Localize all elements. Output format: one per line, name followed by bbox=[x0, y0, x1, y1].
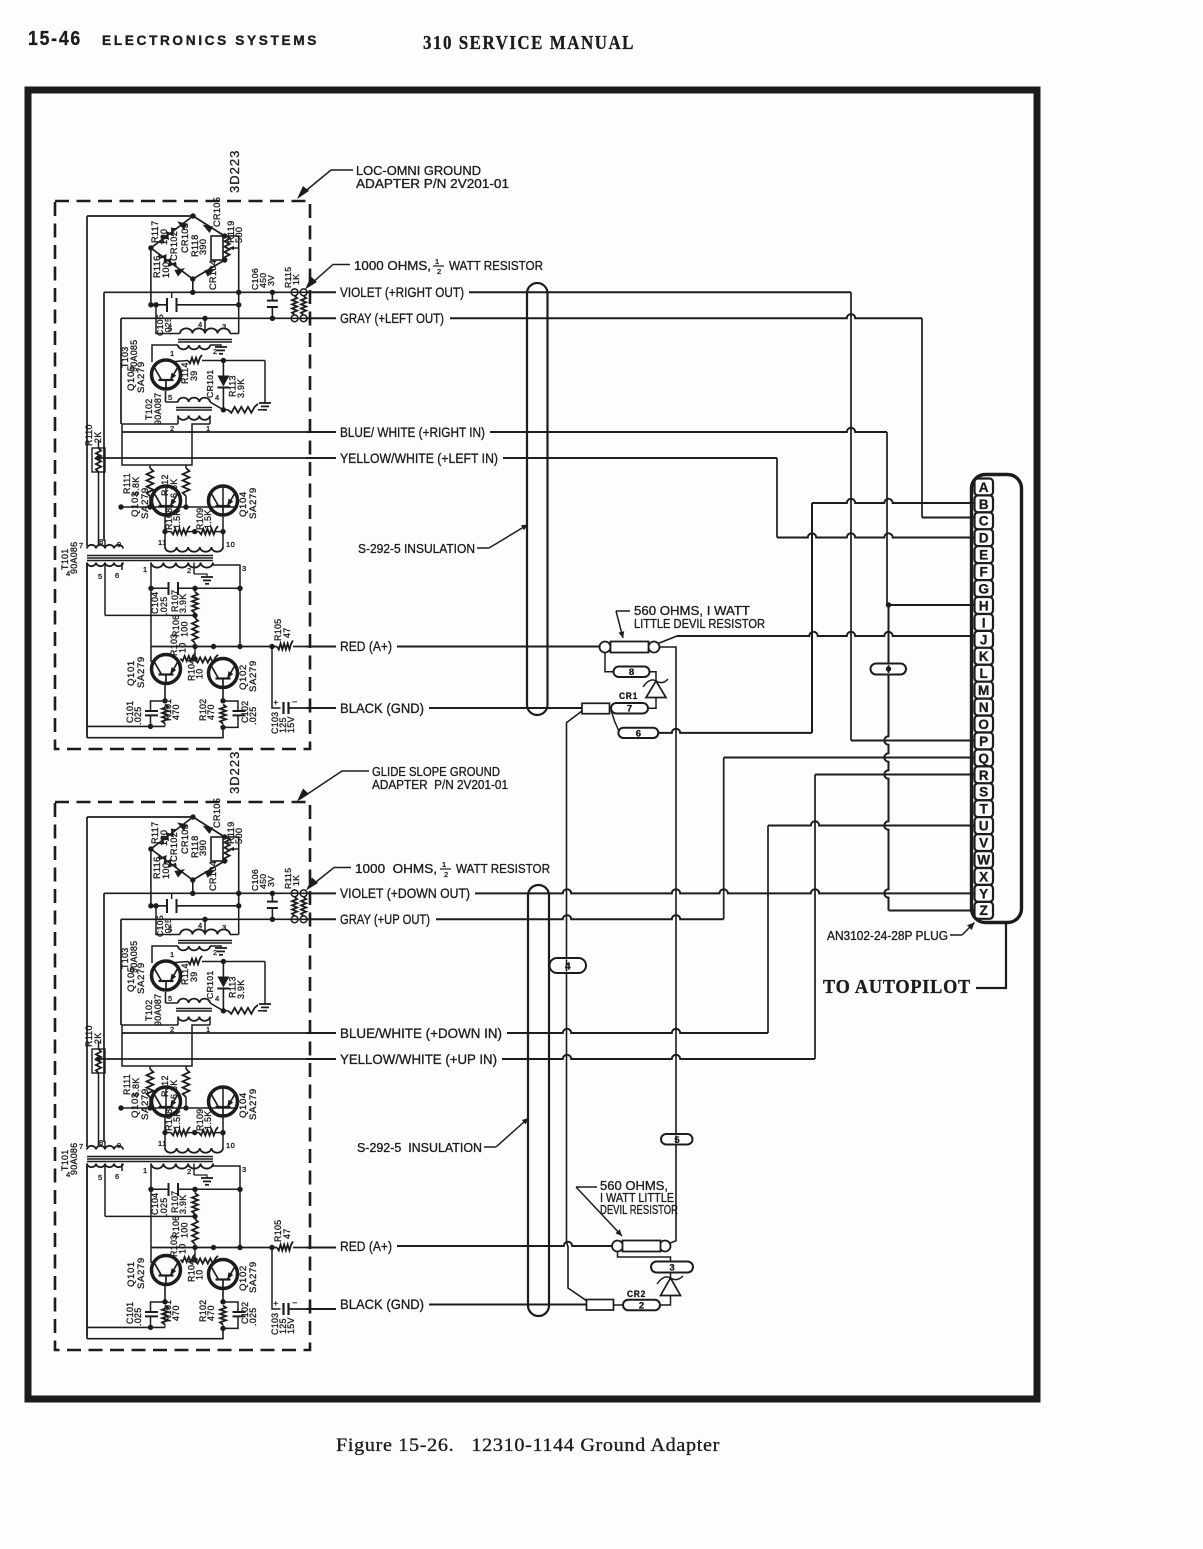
wire GRAY to Q bbox=[724, 758, 975, 920]
wire terminal resistor BLACK (upper) bbox=[582, 703, 610, 713]
label R119 500 (LOC-OMNI block) bbox=[226, 221, 244, 243]
svg-text:X: X bbox=[979, 869, 988, 884]
svg-text:BLACK (GND): BLACK (GND) bbox=[340, 700, 424, 716]
label 1000 OHMS 1/2 WATT (upper) bbox=[354, 257, 543, 276]
wire RED (A+) upper bbox=[306, 646, 600, 648]
svg-text:470: 470 bbox=[206, 1305, 216, 1321]
capacitor C106 (LOC-OMNI block) bbox=[267, 290, 278, 321]
wire bridge left drop (LOC-OMNI block) bbox=[150, 248, 152, 305]
resistor R114 (LOC-OMNI block) bbox=[175, 355, 265, 363]
diode CR105 (glide slope block) bbox=[203, 826, 214, 834]
wire mid rail (LOC-OMNI block) bbox=[105, 613, 198, 618]
label R118 390 (LOC-OMNI block) bbox=[190, 235, 208, 257]
pin 9 T101 (LOC-OMNI block) bbox=[117, 540, 122, 549]
resistor R109 (glide slope block) bbox=[199, 1127, 218, 1135]
label R108 1.5K (LOC-OMNI block) bbox=[164, 508, 182, 530]
svg-text:3: 3 bbox=[242, 1165, 247, 1174]
wire T101 pin2 stub (glide slope block) bbox=[193, 1164, 195, 1176]
svg-text:11: 11 bbox=[158, 1139, 167, 1148]
resistor R109 (LOC-OMNI block) bbox=[199, 526, 218, 534]
svg-text:L: L bbox=[980, 666, 988, 681]
leader S-292-5 insulation (upper) bbox=[477, 525, 528, 549]
svg-text:3.9K: 3.9K bbox=[178, 1195, 188, 1214]
wire bridge bottom drop (LOC-OMNI block) bbox=[190, 279, 195, 295]
svg-text:1000 OHMS,: 1000 OHMS, bbox=[355, 861, 437, 876]
pin 10 T101 (LOC-OMNI block) bbox=[226, 540, 235, 549]
svg-text:.025: .025 bbox=[133, 1308, 143, 1326]
svg-text:+: + bbox=[273, 698, 278, 707]
pin 5 T102 (glide slope block) bbox=[168, 994, 173, 1003]
diode CR101 (LOC-OMNI block) bbox=[217, 361, 229, 413]
wire bottom rail lower (LOC-OMNI block) bbox=[87, 727, 223, 737]
wire C105 row (LOC-OMNI block) bbox=[148, 302, 241, 307]
wire Q101 emitter (LOC-OMNI block) bbox=[162, 684, 167, 704]
ground T101 pin2 (LOC-OMNI block) bbox=[194, 574, 213, 584]
ground R113 (glide slope block) bbox=[259, 962, 271, 1011]
svg-text:90A087: 90A087 bbox=[153, 994, 163, 1026]
svg-text:SA279: SA279 bbox=[140, 487, 151, 519]
svg-text:SA279: SA279 bbox=[248, 1261, 259, 1293]
svg-text:WATT RESISTOR: WATT RESISTOR bbox=[456, 861, 550, 876]
diode CR2 bbox=[657, 1276, 683, 1296]
svg-text:G: G bbox=[978, 581, 989, 596]
pin 1 T102 (glide slope block) bbox=[206, 1025, 211, 1034]
dashed enclosure box 3D223 (LOC-OMNI block) bbox=[55, 201, 310, 749]
svg-text:D: D bbox=[979, 531, 989, 546]
svg-text:ADAPTER P/N 2V201-01: ADAPTER P/N 2V201-01 bbox=[356, 176, 509, 191]
label R111 6.8K (glide slope block) bbox=[122, 1074, 141, 1097]
wire 560 left drop to terminal 8 bbox=[605, 653, 614, 672]
svg-text:J: J bbox=[980, 632, 988, 647]
resistor R108 (glide slope block) bbox=[171, 1127, 190, 1135]
wire divider rail (glide slope block) bbox=[118, 1087, 238, 1111]
resistor R114 (glide slope block) bbox=[175, 956, 265, 964]
label RED (A+) lower bbox=[340, 1238, 392, 1254]
svg-text:2: 2 bbox=[444, 870, 449, 879]
label VIOLET (+DOWN OUT) bbox=[340, 885, 470, 901]
label YELLOW/WHITE (+LEFT IN) bbox=[340, 450, 498, 466]
pin 1 T101 (glide slope block) bbox=[143, 1166, 148, 1175]
wire gray feed inside (glide slope block) bbox=[121, 918, 306, 920]
svg-text:100: 100 bbox=[159, 229, 169, 245]
svg-text:100: 100 bbox=[161, 262, 171, 278]
svg-text:CR2: CR2 bbox=[627, 1289, 646, 1300]
svg-text:CR104: CR104 bbox=[208, 861, 218, 891]
connector pin K bbox=[975, 648, 994, 665]
svg-text:470: 470 bbox=[171, 1305, 181, 1321]
svg-text:BLUE/ WHITE (+RIGHT IN): BLUE/ WHITE (+RIGHT IN) bbox=[340, 424, 485, 440]
node diamond upper right (LOC-OMNI block) bbox=[222, 233, 227, 238]
capacitor C104 (LOC-OMNI block) bbox=[169, 582, 179, 595]
svg-text:WATT RESISTOR: WATT RESISTOR bbox=[449, 258, 543, 273]
wire yellow-white inside (glide slope block) bbox=[95, 1056, 306, 1061]
svg-text:7: 7 bbox=[79, 541, 84, 550]
dashed enclosure box 3D223 (glide slope block) bbox=[55, 802, 310, 1350]
wire blue-white inside (LOC-OMNI block) bbox=[122, 431, 306, 433]
wire diamond top feed (LOC-OMNI block) bbox=[87, 215, 193, 217]
svg-text:3D223: 3D223 bbox=[227, 751, 242, 794]
pin 8 T101 (LOC-OMNI block) bbox=[99, 537, 104, 546]
wire emitter rail Q103/Q104 (LOC-OMNI block) bbox=[162, 515, 225, 534]
svg-text:4: 4 bbox=[215, 994, 220, 1003]
capacitor C105 (LOC-OMNI block) bbox=[167, 292, 193, 312]
terminal capsule 9 bbox=[871, 664, 907, 675]
wire to autopilot bbox=[976, 924, 1006, 988]
svg-text:SA279: SA279 bbox=[136, 962, 147, 994]
pin 4 T101 (LOC-OMNI block) bbox=[66, 569, 71, 578]
svg-text:P: P bbox=[979, 734, 988, 749]
svg-text:3V: 3V bbox=[266, 275, 276, 286]
label S-292-5 INSULATION (lower) bbox=[357, 1140, 482, 1155]
svg-text:100: 100 bbox=[159, 830, 169, 846]
wire VIOLET (+DOWN OUT) bbox=[306, 889, 975, 893]
svg-text:1: 1 bbox=[143, 565, 148, 574]
svg-text:1: 1 bbox=[143, 1166, 148, 1175]
wire left bus A (x=87) (LOC-OMNI block) bbox=[86, 216, 88, 738]
svg-text:GRAY (+UP OUT): GRAY (+UP OUT) bbox=[340, 911, 430, 927]
wire bottom rail upper (LOC-OMNI block) bbox=[87, 725, 165, 727]
svg-text:5: 5 bbox=[168, 324, 173, 333]
page header manual title bbox=[423, 32, 635, 54]
svg-text:BLACK (GND): BLACK (GND) bbox=[340, 1296, 424, 1312]
label R108 1.5K (glide slope block) bbox=[164, 1109, 182, 1131]
svg-text:7: 7 bbox=[79, 1142, 84, 1151]
pin 5 T103 (glide slope block) bbox=[168, 925, 173, 934]
pin 11 T101 (LOC-OMNI block) bbox=[158, 538, 167, 547]
svg-text:CR101: CR101 bbox=[205, 970, 215, 999]
ground T103 secondary (glide slope block) bbox=[215, 948, 227, 955]
svg-text:6: 6 bbox=[115, 1172, 120, 1181]
svg-text:S: S bbox=[979, 785, 988, 800]
label R111 6.8K (LOC-OMNI block) bbox=[122, 473, 141, 496]
terminal capsule 4 bbox=[550, 958, 587, 973]
label R109 1.5K (glide slope block) bbox=[195, 1109, 213, 1131]
svg-text:2: 2 bbox=[437, 267, 442, 276]
label R106 100 (glide slope block) bbox=[171, 1216, 190, 1238]
wire terminal 8 to CR1 bbox=[650, 672, 657, 681]
label CR1 bbox=[619, 691, 638, 702]
wire violet feed inside (LOC-OMNI block) bbox=[104, 291, 306, 293]
resistor R110 boxed (glide slope block) bbox=[92, 1041, 105, 1147]
wire T101 pin3 riser (glide slope block) bbox=[213, 1164, 243, 1251]
wire emitter rail Q103/Q104 (glide slope block) bbox=[162, 1116, 225, 1135]
svg-text:SA279: SA279 bbox=[136, 656, 147, 688]
svg-text:TO AUTOPILOT: TO AUTOPILOT bbox=[823, 977, 971, 998]
resistor R106 (LOC-OMNI block) bbox=[192, 615, 198, 646]
connector pin Z bbox=[975, 902, 994, 919]
capacitor C105 (glide slope block) bbox=[167, 893, 193, 913]
resistor R101 (LOC-OMNI block) bbox=[162, 705, 168, 727]
transformer T102 (LOC-OMNI block) bbox=[166, 398, 224, 424]
diode CR103 (LOC-OMNI block) bbox=[177, 221, 188, 230]
wire BLUE/WHITE (+RIGHT IN) bbox=[306, 428, 887, 432]
label R113 3.9K (LOC-OMNI block) bbox=[228, 375, 247, 398]
wire C104 row (glide slope block) bbox=[151, 1188, 240, 1190]
svg-text:4: 4 bbox=[198, 921, 203, 930]
svg-text:10: 10 bbox=[178, 643, 188, 653]
transistor Q103 (LOC-OMNI block) bbox=[152, 486, 181, 515]
connector pin I bbox=[975, 614, 994, 631]
connector pin Y bbox=[975, 885, 994, 902]
terminal capsule 2 bbox=[623, 1300, 660, 1312]
svg-text:2K: 2K bbox=[93, 1033, 103, 1044]
diode CR103 (glide slope block) bbox=[177, 822, 188, 831]
label R107 3.9K (glide slope block) bbox=[170, 1191, 188, 1214]
wire terminal 6 to B vertical bbox=[658, 729, 812, 733]
label C105 .025 (LOC-OMNI block) bbox=[155, 314, 173, 336]
label GRAY (+LEFT OUT) bbox=[340, 310, 444, 326]
wire CR1 to terminal 7 bbox=[648, 698, 656, 709]
svg-text:2: 2 bbox=[639, 1300, 644, 1311]
svg-text:8: 8 bbox=[629, 667, 634, 678]
label LOC-OMNI GROUND ADAPTER bbox=[356, 163, 509, 191]
wire blue-white inside (glide slope block) bbox=[122, 1032, 306, 1034]
svg-text:1.5K: 1.5K bbox=[172, 1111, 182, 1130]
wire bridge left drop (glide slope block) bbox=[150, 849, 152, 906]
wire YELLOW/WHITE (+LEFT IN) bbox=[306, 457, 777, 459]
label C105 .025 (glide slope block) bbox=[155, 915, 173, 937]
svg-text:2: 2 bbox=[213, 347, 218, 356]
svg-text:E: E bbox=[979, 548, 988, 563]
svg-text:6: 6 bbox=[115, 571, 120, 580]
transistor Q105 (LOC-OMNI block) bbox=[152, 360, 181, 389]
svg-text:4: 4 bbox=[198, 320, 203, 329]
resistor 560 ohm (upper) bbox=[600, 642, 660, 653]
label R102 470 (LOC-OMNI block) bbox=[198, 699, 216, 721]
svg-text:7: 7 bbox=[627, 704, 632, 715]
svg-text:–: – bbox=[293, 697, 298, 706]
node capsule 5 junction bbox=[673, 1136, 678, 1141]
capacitor C102 (glide slope block) bbox=[220, 1302, 245, 1331]
connector pin W bbox=[975, 851, 994, 868]
svg-text:RED (A+): RED (A+) bbox=[340, 638, 392, 654]
pin 11 T101 (glide slope block) bbox=[158, 1139, 167, 1148]
wire left bus B (x=104) (glide slope block) bbox=[104, 893, 105, 1141]
insulation sleeve (lower) bbox=[528, 885, 549, 1316]
node diamond bottom (glide slope block) bbox=[190, 877, 195, 882]
label AN3102-24-28P PLUG bbox=[827, 929, 948, 943]
svg-text:2: 2 bbox=[187, 1167, 192, 1176]
label C106 450 3V (glide slope block) bbox=[250, 869, 276, 891]
svg-text:3: 3 bbox=[222, 923, 227, 932]
pin 1 T103 (glide slope block) bbox=[170, 950, 175, 959]
svg-text:9: 9 bbox=[117, 540, 122, 549]
svg-text:ADAPTER P/N 2V201-01: ADAPTER P/N 2V201-01 bbox=[372, 777, 508, 792]
connector pin M bbox=[975, 682, 994, 699]
svg-text:Z: Z bbox=[980, 903, 988, 918]
transistor Q101 (glide slope block) bbox=[152, 1256, 181, 1285]
wire Q105 emitter (LOC-OMNI block) bbox=[165, 391, 167, 402]
svg-text:4: 4 bbox=[215, 393, 220, 402]
svg-text:10: 10 bbox=[178, 1244, 188, 1254]
wire C104 row (LOC-OMNI block) bbox=[151, 587, 240, 589]
wire red drop to C103 (LOC-OMNI block) bbox=[272, 647, 281, 709]
wire divider rail (LOC-OMNI block) bbox=[118, 486, 238, 510]
svg-text:5: 5 bbox=[168, 994, 173, 1003]
label CR105 (LOC-OMNI block) bbox=[212, 197, 222, 227]
wire red rail inside (glide slope block) bbox=[151, 1245, 277, 1250]
svg-text:SA279: SA279 bbox=[248, 487, 259, 519]
svg-text:CR105: CR105 bbox=[212, 197, 222, 227]
svg-text:.025: .025 bbox=[159, 1198, 169, 1216]
svg-text:1K: 1K bbox=[291, 875, 301, 886]
capacitor C104 (glide slope block) bbox=[169, 1183, 179, 1196]
node diamond lower right (LOC-OMNI block) bbox=[222, 257, 227, 262]
svg-text:S-292-5 INSULATION: S-292-5 INSULATION bbox=[358, 541, 475, 556]
svg-text:ELECTRONICS SYSTEMS: ELECTRONICS SYSTEMS bbox=[102, 33, 319, 48]
label CR105 (glide slope block) bbox=[212, 798, 222, 828]
label R114 39 (glide slope block) bbox=[180, 963, 199, 985]
label T103 90A085 (LOC-OMNI block) bbox=[120, 340, 139, 372]
wire VIOLET (+RIGHT OUT) bbox=[306, 291, 851, 293]
wire YELLOW/WHITE (+UP IN) bbox=[306, 1055, 815, 1059]
svg-text:Q: Q bbox=[978, 751, 989, 766]
label C106 450 3V (LOC-OMNI block) bbox=[250, 268, 276, 290]
label R110 2K (LOC-OMNI block) bbox=[84, 424, 103, 446]
connector pin O bbox=[975, 716, 994, 733]
label T101 90A086 (glide slope block) bbox=[60, 1143, 79, 1175]
svg-text:2: 2 bbox=[187, 566, 192, 575]
svg-text:10: 10 bbox=[195, 1270, 205, 1280]
wire red drop to C103 (glide slope block) bbox=[272, 1248, 281, 1310]
terminal capsule 7 bbox=[611, 703, 648, 715]
transistor Q104 (glide slope block) bbox=[209, 1087, 238, 1116]
label BLUE/WHITE (+RIGHT IN) bbox=[340, 424, 485, 440]
svg-text:15V: 15V bbox=[286, 1317, 296, 1334]
diode CR101 (glide slope block) bbox=[217, 962, 229, 1014]
svg-text:W: W bbox=[977, 852, 990, 867]
label R115 1K (glide slope block) bbox=[283, 868, 301, 889]
svg-text:1K: 1K bbox=[291, 274, 301, 285]
pin 3 T101 (glide slope block) bbox=[242, 1165, 247, 1174]
wire diamond top feed (glide slope block) bbox=[87, 816, 193, 818]
wire terminal 7 to 6 link bbox=[611, 710, 618, 730]
node diamond lower right (glide slope block) bbox=[222, 858, 227, 863]
svg-text:.025: .025 bbox=[133, 707, 143, 725]
label R106 100 (LOC-OMNI block) bbox=[171, 615, 190, 637]
svg-text:Y: Y bbox=[979, 886, 988, 901]
svg-text:+: + bbox=[273, 1299, 278, 1308]
svg-text:–: – bbox=[293, 1298, 298, 1307]
label CR2 bbox=[627, 1289, 646, 1300]
svg-text:5: 5 bbox=[674, 1135, 680, 1146]
label C103 125 15V (glide slope block) bbox=[270, 1313, 296, 1335]
wire terminal 3 to CR2 bbox=[670, 1273, 672, 1279]
svg-text:1.5K: 1.5K bbox=[203, 510, 213, 529]
leader LOC-OMNI ground adapter bbox=[297, 170, 353, 199]
svg-text:15V: 15V bbox=[286, 716, 296, 733]
label CR103 (glide slope block) bbox=[180, 824, 190, 854]
connector pin N bbox=[975, 699, 994, 716]
wire VIOLET to P bbox=[851, 292, 975, 740]
transistor Q105 (glide slope block) bbox=[152, 961, 181, 990]
label BLACK (GND) lower bbox=[340, 1296, 424, 1312]
svg-text:YELLOW/WHITE (+UP IN): YELLOW/WHITE (+UP IN) bbox=[340, 1051, 497, 1067]
leader 1000 ohms resistor (upper) bbox=[305, 265, 350, 290]
svg-text:9: 9 bbox=[117, 1141, 122, 1150]
svg-text:1: 1 bbox=[442, 860, 447, 869]
svg-text:3: 3 bbox=[222, 322, 227, 331]
resistor R113 (glide slope block) bbox=[223, 1005, 265, 1014]
svg-text:K: K bbox=[979, 649, 989, 664]
resistor R119 with wiper (LOC-OMNI block) bbox=[224, 236, 238, 260]
svg-text:CR102: CR102 bbox=[169, 832, 179, 862]
svg-text:SA279: SA279 bbox=[248, 1088, 259, 1120]
wire T102 secondary loop (LOC-OMNI block) bbox=[122, 424, 210, 465]
svg-text:.025: .025 bbox=[248, 707, 258, 725]
resistor R107 (LOC-OMNI block) bbox=[192, 586, 198, 613]
resistor R116 (LOC-OMNI block) bbox=[159, 254, 176, 267]
pin 5 T101 (glide slope block) bbox=[98, 1173, 103, 1182]
svg-text:4: 4 bbox=[66, 569, 71, 578]
resistor R112 (glide slope block) bbox=[183, 1066, 190, 1108]
transformer T103 (LOC-OMNI block) bbox=[152, 305, 239, 362]
wire T103 to C105 (LOC-OMNI block) bbox=[153, 302, 158, 307]
resistor R106 (glide slope block) bbox=[192, 1216, 198, 1247]
label C102 .025 (glide slope block) bbox=[240, 1302, 258, 1326]
wire left bus B (x=104) (LOC-OMNI block) bbox=[104, 292, 105, 540]
svg-text:2: 2 bbox=[213, 948, 218, 957]
page header section title bbox=[102, 33, 319, 48]
pin 4 T102 (glide slope block) bbox=[215, 994, 220, 1003]
label Q103 SA279 (LOC-OMNI block) bbox=[130, 487, 151, 519]
svg-text:47: 47 bbox=[282, 628, 292, 638]
svg-text:CR101: CR101 bbox=[205, 369, 215, 398]
resistor R110 boxed (LOC-OMNI block) bbox=[92, 440, 105, 546]
connector AN3102-24-28P outline bbox=[972, 475, 1022, 923]
wire T101 sec left legs (glide slope block) bbox=[87, 1164, 122, 1337]
svg-text:1.5K: 1.5K bbox=[203, 1111, 213, 1130]
label Q104 SA279 (LOC-OMNI block) bbox=[238, 487, 259, 519]
label Q101 SA279 (LOC-OMNI block) bbox=[126, 656, 147, 688]
label C101 .025 (glide slope block) bbox=[125, 1302, 143, 1326]
wire C105 row (glide slope block) bbox=[148, 903, 241, 908]
leader 1000 ohms resistor (lower) bbox=[306, 868, 351, 891]
outer border frame bbox=[28, 90, 1037, 1399]
svg-text:4: 4 bbox=[66, 1170, 71, 1179]
node diamond top (LOC-OMNI block) bbox=[190, 213, 195, 218]
resistor R103 (glide slope block) bbox=[181, 1254, 195, 1262]
svg-text:5: 5 bbox=[168, 393, 173, 402]
wire GRAY to C bbox=[922, 318, 975, 517]
svg-text:11: 11 bbox=[158, 538, 167, 547]
svg-text:C: C bbox=[979, 514, 989, 529]
connector pin E bbox=[975, 546, 994, 563]
resistor R103 (LOC-OMNI block) bbox=[181, 653, 195, 661]
diode CR104 (glide slope block) bbox=[204, 870, 215, 878]
diode CR1 bbox=[643, 679, 668, 698]
label Q102 SA279 (glide slope block) bbox=[238, 1261, 259, 1293]
svg-text:15-46: 15-46 bbox=[28, 28, 82, 50]
svg-text:CR103: CR103 bbox=[180, 223, 190, 253]
node diamond left (glide slope block) bbox=[148, 846, 153, 851]
label R119 500 (glide slope block) bbox=[226, 822, 244, 844]
label R105 47 (LOC-OMNI block) bbox=[273, 619, 292, 641]
label R103 10 (glide slope block) bbox=[169, 1235, 188, 1257]
terminal capsule 6 bbox=[618, 728, 658, 740]
wire left bus A (x=87) (glide slope block) bbox=[86, 817, 88, 1339]
svg-text:2K: 2K bbox=[93, 432, 103, 443]
pin 5 T103 (LOC-OMNI block) bbox=[168, 324, 173, 333]
diode bridge outline (LOC-OMNI block) bbox=[151, 216, 225, 279]
svg-text:VIOLET (+DOWN OUT): VIOLET (+DOWN OUT) bbox=[340, 885, 470, 901]
pin 1 T103 (LOC-OMNI block) bbox=[170, 349, 175, 358]
connector pin J bbox=[975, 631, 994, 648]
pin 6 T101 (LOC-OMNI block) bbox=[115, 571, 120, 580]
connector pin G bbox=[975, 580, 994, 597]
diode bridge outline (glide slope block) bbox=[151, 817, 225, 880]
label Q102 SA279 (LOC-OMNI block) bbox=[238, 660, 259, 692]
